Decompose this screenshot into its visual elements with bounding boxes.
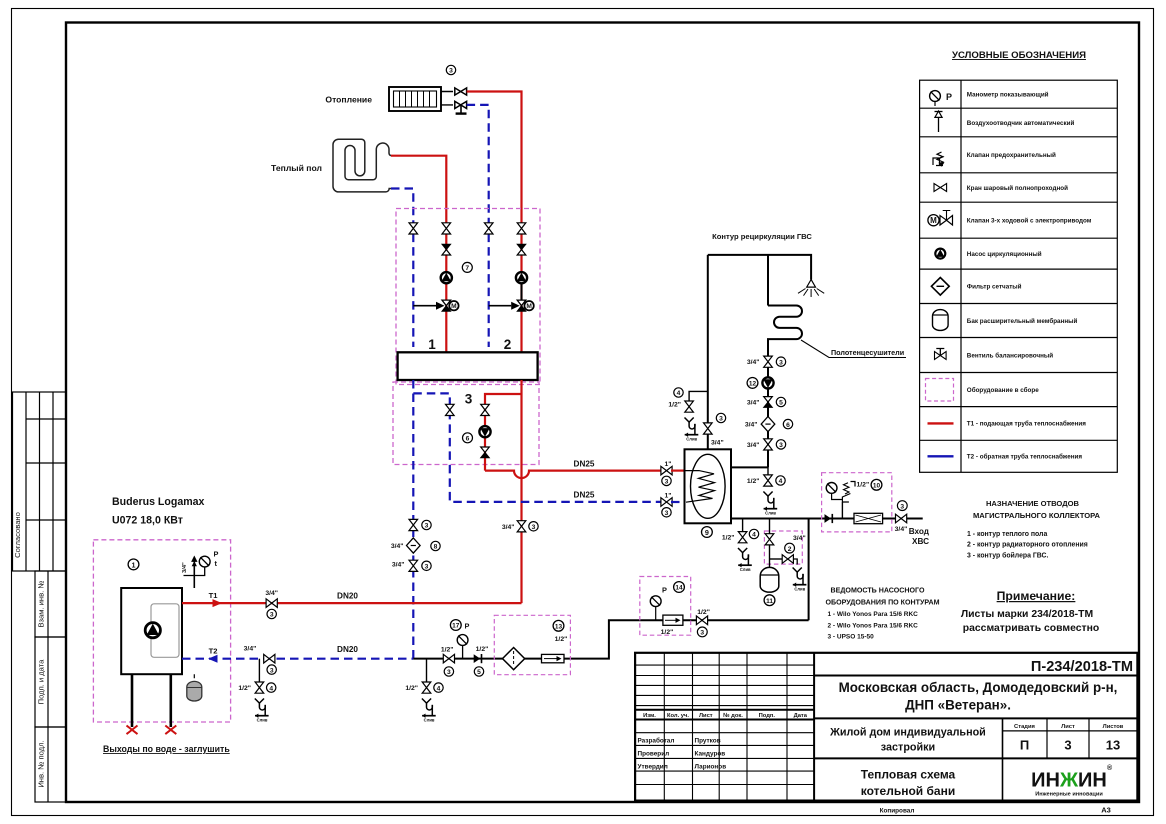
valve red branch3	[481, 404, 490, 415]
svg-text:рассматривать совместно: рассматривать совместно	[963, 623, 1099, 634]
svg-text:П: П	[1020, 738, 1029, 753]
3way valve V2	[517, 300, 534, 311]
circled 6 pump3	[463, 433, 473, 443]
wire recirc top line	[708, 255, 811, 280]
pump P1	[441, 272, 452, 283]
svg-text:3: 3	[665, 510, 669, 517]
svg-text:Копировал: Копировал	[880, 808, 915, 815]
wire red branch3	[485, 394, 522, 471]
stage list cells	[1003, 718, 1138, 758]
approval strip Soglasovano box	[13, 392, 67, 571]
svg-text:НАЗНАЧЕНИЕ ОТВОДОВ: НАЗНАЧЕНИЕ ОТВОДОВ	[986, 499, 1080, 508]
drain branch tank top	[668, 388, 707, 442]
svg-text:3: 3	[270, 612, 274, 619]
svg-text:6: 6	[786, 422, 790, 429]
expansion tank 11	[760, 567, 779, 605]
svg-text:Тепловая схема: Тепловая схема	[861, 768, 956, 782]
valve CW inlet	[895, 501, 908, 533]
svg-text:2: 2	[504, 337, 512, 352]
check valve branch3	[481, 447, 490, 458]
arrow T1	[213, 599, 223, 607]
svg-text:11: 11	[766, 598, 773, 605]
svg-text:6: 6	[466, 436, 470, 443]
svg-text:1/2": 1/2"	[697, 609, 710, 616]
svg-text:17: 17	[452, 623, 460, 630]
svg-text:3/4": 3/4"	[895, 526, 908, 533]
wire recirc column	[767, 367, 769, 468]
title block vertical divider right part	[813, 653, 815, 801]
svg-text:DN20: DN20	[337, 592, 358, 601]
stage values text	[1020, 738, 1120, 753]
wire red1 riser	[445, 234, 447, 353]
svg-text:3: 3	[719, 416, 723, 423]
expansion branch	[765, 519, 806, 592]
svg-text:3/4": 3/4"	[747, 442, 760, 449]
valve red1	[442, 223, 451, 234]
svg-text:1/2": 1/2"	[405, 685, 418, 692]
svg-text:2 - контур радиаторного отопле: 2 - контур радиаторного отопления	[967, 542, 1088, 549]
svg-text:Инв. № подл.: Инв. № подл.	[37, 740, 46, 787]
equipment box 14	[640, 577, 691, 636]
legend sym T1 line	[928, 422, 954, 424]
svg-text:3/4": 3/4"	[392, 562, 405, 569]
wire CW tank feed line	[731, 518, 923, 520]
svg-text:3: 3	[532, 524, 536, 531]
check valve red2	[517, 244, 526, 255]
drain T2	[238, 659, 276, 723]
wire T2 blue	[182, 658, 413, 660]
drain CW line	[722, 519, 759, 573]
boiler gauge Pt	[184, 550, 219, 576]
wire red main riser down	[520, 380, 522, 603]
title block outer box	[635, 653, 1137, 801]
meter box14	[661, 615, 683, 636]
legend sym 3way valve	[928, 211, 953, 226]
svg-text:Слив: Слив	[740, 567, 751, 572]
svg-text:3: 3	[779, 359, 783, 366]
3way arrow V1	[413, 302, 444, 310]
circled 7 pumps	[462, 262, 472, 272]
svg-text:Проверил: Проверил	[638, 751, 670, 758]
svg-text:1/2": 1/2"	[441, 647, 454, 654]
svg-text:1 - Wilo Yonos Para 15/6 RKC: 1 - Wilo Yonos Para 15/6 RKC	[828, 611, 919, 618]
legend sym expansion tank	[933, 310, 949, 331]
wire T1 red	[182, 602, 522, 604]
equipment box 2	[764, 531, 802, 564]
signature rows names	[638, 737, 727, 771]
svg-text:9: 9	[705, 528, 709, 537]
legend sym air vent	[935, 111, 943, 132]
check valve red1	[442, 244, 451, 255]
valve makeup upper	[696, 609, 710, 637]
circled 9 tank	[702, 527, 713, 538]
strainer recirc	[745, 417, 793, 432]
svg-text:Ларионов: Ларионов	[695, 764, 727, 771]
svg-text:1/2": 1/2"	[238, 685, 251, 692]
svg-text:Кандуров: Кандуров	[695, 751, 726, 758]
floor heating coil	[333, 139, 391, 192]
wire recirc drop	[767, 255, 769, 306]
svg-text:Слив: Слив	[257, 718, 268, 723]
svg-text:3: 3	[700, 630, 704, 637]
valve DN25 supply at tank	[661, 461, 672, 486]
pump P3	[479, 426, 490, 437]
title block left grid lines	[635, 653, 814, 801]
svg-text:Взам. инв. №: Взам. инв. №	[37, 580, 46, 627]
svg-text:Разработал: Разработал	[638, 737, 675, 745]
strip box Vzam inv	[35, 571, 66, 637]
strip box Podp i data	[35, 637, 66, 727]
svg-text:Листов: Листов	[1103, 724, 1124, 730]
svg-text:3: 3	[447, 669, 451, 676]
svg-text:3: 3	[425, 523, 429, 530]
valve tank top	[704, 413, 726, 446]
svg-text:Оборудование в сборе: Оборудование в сборе	[967, 386, 1039, 394]
valve blue riser bottom	[392, 560, 431, 571]
legend sym manometer	[930, 91, 952, 106]
svg-text:3: 3	[779, 442, 783, 449]
3way arrow V2	[489, 302, 520, 310]
legend sym T2 line	[928, 455, 954, 457]
valve red2	[517, 223, 526, 234]
svg-text:Кран шаровый полнопроходной: Кран шаровый полнопроходной	[967, 184, 1068, 192]
svg-text:3: 3	[270, 667, 274, 674]
valve recirc bottom	[747, 439, 786, 450]
drain makeup line	[405, 659, 443, 723]
svg-text:12: 12	[749, 381, 757, 388]
wire pump2 to valve2 black	[521, 284, 523, 300]
check valve box10	[825, 514, 833, 523]
svg-text:Теплый пол: Теплый пол	[271, 163, 322, 173]
svg-text:Т1: Т1	[209, 591, 219, 600]
svg-text:Слив: Слив	[686, 437, 697, 442]
valve T2	[264, 654, 277, 674]
boiler inner panel	[151, 604, 179, 658]
svg-text:Инженерные инновации: Инженерные инновации	[1035, 792, 1103, 798]
wire red to tank	[671, 470, 685, 472]
3way valve V1	[442, 300, 459, 311]
wire floor return blue	[391, 189, 413, 224]
svg-text:7: 7	[465, 265, 469, 272]
svg-text:3: 3	[665, 479, 669, 486]
svg-text:1": 1"	[664, 492, 671, 499]
boiler pump	[145, 623, 160, 638]
svg-text:10: 10	[873, 483, 881, 490]
radiator supply valve	[455, 88, 467, 95]
boiler sensor stem	[191, 556, 197, 589]
legend sym safety valve	[933, 152, 945, 167]
towel dryer coil	[768, 306, 802, 357]
expansion vessel boiler	[187, 674, 202, 701]
svg-text:3/4": 3/4"	[244, 646, 257, 653]
svg-text:Согласовано: Согласовано	[13, 512, 22, 558]
legend sym pump	[935, 249, 945, 259]
svg-text:Стадия: Стадия	[1014, 724, 1035, 730]
svg-text:P: P	[214, 550, 219, 559]
svg-text:1/2": 1/2"	[661, 629, 674, 636]
list kontur items	[967, 531, 1088, 559]
check valve recirc	[747, 397, 786, 408]
equipment box boiler	[93, 540, 230, 722]
drain recirc bottom	[747, 467, 785, 515]
legend sym balance valve	[935, 349, 947, 360]
svg-text:1 - контур теплого пола: 1 - контур теплого пола	[967, 531, 1047, 538]
meter box10	[854, 513, 883, 523]
doc number cell	[814, 675, 1137, 677]
svg-text:Вентиль балансировочный: Вентиль балансировочный	[967, 351, 1054, 359]
svg-text:3/4": 3/4"	[265, 590, 278, 597]
valve blue1	[409, 223, 418, 234]
radiator Otoplenie	[389, 87, 441, 111]
valve DN25 return at tank	[661, 492, 672, 517]
legend sym equipment box	[926, 379, 954, 402]
collector manifold	[398, 352, 538, 380]
svg-text:4: 4	[437, 685, 441, 692]
svg-text:ВЕДОМОСТЬ НАСОСНОГО: ВЕДОМОСТЬ НАСОСНОГО	[831, 587, 925, 595]
legend sym strainer	[931, 278, 949, 296]
project location cell line	[814, 717, 1137, 719]
object cell divider	[1002, 718, 1004, 800]
svg-text:Насос циркуляционный: Насос циркуляционный	[967, 250, 1042, 258]
circled 3 radiator	[446, 65, 455, 74]
svg-text:3: 3	[1064, 738, 1071, 753]
svg-text:DN25: DN25	[574, 460, 595, 469]
wire blue main riser down	[412, 380, 414, 659]
boiler body	[121, 588, 182, 674]
DHW tank	[685, 449, 732, 523]
svg-text:Т1 - подающая труба теплоснабж: Т1 - подающая труба теплоснабжения	[967, 420, 1086, 428]
safety group box10	[826, 482, 855, 519]
pump schedule items	[828, 611, 919, 641]
svg-text:14: 14	[675, 585, 683, 592]
svg-text:Т2 - обратная труба теплоснабж: Т2 - обратная труба теплоснабжения	[967, 453, 1083, 461]
svg-text:ИНЖИН: ИНЖИН	[1031, 770, 1107, 792]
svg-text:№ док.: № док.	[723, 713, 743, 719]
arrow T2	[208, 655, 218, 663]
svg-text:3/4": 3/4"	[747, 400, 760, 407]
svg-text:4: 4	[269, 685, 273, 692]
svg-text:3/4": 3/4"	[391, 543, 404, 550]
svg-text:Полотенцесушители: Полотенцесушители	[831, 348, 904, 357]
svg-text:1: 1	[132, 560, 136, 569]
svg-text:3/4": 3/4"	[502, 524, 515, 531]
valve T1	[266, 599, 277, 619]
svg-text:Листы марки 234/2018-ТМ: Листы марки 234/2018-ТМ	[961, 609, 1093, 620]
svg-text:®: ®	[1107, 764, 1113, 772]
equipment box collector unit	[396, 209, 540, 385]
svg-text:3/4": 3/4"	[793, 535, 806, 542]
svg-text:Слив: Слив	[794, 587, 805, 592]
svg-text:3 - контур бойлера ГВС.: 3 - контур бойлера ГВС.	[967, 551, 1048, 559]
valve makeup lower	[443, 654, 454, 676]
svg-text:3/4": 3/4"	[182, 562, 188, 573]
svg-text:U072 18,0 КВт: U072 18,0 КВт	[112, 515, 183, 527]
svg-text:P: P	[946, 92, 952, 102]
svg-text:3: 3	[425, 564, 429, 571]
wire makeup lower	[413, 620, 808, 658]
stage header text	[1014, 724, 1124, 730]
radiator stubs	[441, 92, 453, 105]
boiler legs	[132, 674, 171, 727]
header labels Izm Kol List	[643, 713, 808, 719]
wire DHW riser	[707, 255, 709, 423]
gauge makeup	[441, 620, 470, 659]
svg-text:3: 3	[449, 68, 453, 75]
circled 1 boiler	[128, 559, 139, 570]
svg-text:Примечание:: Примечание:	[997, 589, 1076, 603]
svg-text:А3: А3	[1101, 806, 1111, 815]
svg-text:5: 5	[477, 669, 481, 676]
labels box10	[857, 479, 882, 490]
svg-text:Лист: Лист	[1061, 724, 1075, 730]
svg-text:13: 13	[555, 624, 563, 631]
svg-text:Изм.: Изм.	[643, 713, 656, 719]
svg-text:1/2": 1/2"	[555, 636, 568, 643]
svg-text:Утвердил: Утвердил	[638, 764, 668, 771]
pump recirc	[747, 377, 774, 388]
svg-text:Бак расширительный мембранный: Бак расширительный мембранный	[967, 317, 1078, 325]
red X cap right	[165, 726, 176, 735]
svg-text:Подп.: Подп.	[759, 713, 776, 719]
svg-text:ОБОРУДОВАНИЯ ПО КОНТУРАМ: ОБОРУДОВАНИЯ ПО КОНТУРАМ	[825, 599, 939, 607]
svg-text:3/4": 3/4"	[745, 422, 758, 429]
wire recirc into tank	[731, 466, 768, 468]
svg-text:1": 1"	[664, 461, 671, 468]
svg-text:Фильтр сетчатый: Фильтр сетчатый	[967, 283, 1022, 291]
svg-text:Контур рециркуляции ГВС: Контур рециркуляции ГВС	[712, 232, 812, 241]
svg-text:Выходы по воде - заглушить: Выходы по воде - заглушить	[103, 744, 230, 754]
wire red DN25 supply with bridge	[485, 471, 661, 479]
svg-text:Московская область, Домодедовс: Московская область, Домодедовский р-н,	[839, 680, 1118, 695]
svg-text:8: 8	[434, 544, 438, 551]
svg-text:3/4": 3/4"	[747, 359, 760, 366]
wire blue branch3	[413, 393, 661, 502]
svg-text:M: M	[930, 216, 937, 225]
wire CW riser down	[808, 519, 810, 621]
svg-text:2: 2	[788, 546, 792, 553]
wire red2 riser	[520, 234, 522, 353]
svg-text:1/2": 1/2"	[722, 535, 735, 542]
svg-text:Кол. уч.: Кол. уч.	[667, 713, 689, 719]
svg-text:Воздухоотводчик автоматический: Воздухоотводчик автоматический	[967, 119, 1075, 127]
wire blue1 riser	[412, 234, 414, 347]
svg-text:1/2": 1/2"	[857, 482, 870, 489]
svg-text:P: P	[465, 622, 470, 631]
svg-text:Buderus Logamax: Buderus Logamax	[112, 496, 205, 508]
svg-text:Дата: Дата	[794, 713, 808, 719]
svg-text:1/2": 1/2"	[668, 402, 681, 409]
equipment box 13	[494, 615, 570, 674]
INZHIN logo	[1031, 764, 1113, 798]
svg-text:Слив: Слив	[424, 718, 435, 723]
svg-text:П-234/2018-ТМ: П-234/2018-ТМ	[1031, 659, 1133, 675]
svg-text:Т2: Т2	[209, 647, 218, 656]
svg-text:застройки: застройки	[881, 742, 935, 754]
svg-text:Клапан предохранительный: Клапан предохранительный	[967, 151, 1056, 159]
title block header band	[635, 710, 814, 720]
radiator vent tick	[456, 106, 467, 114]
svg-text:УСЛОВНЫЕ ОБОЗНАЧЕНИЯ: УСЛОВНЫЕ ОБОЗНАЧЕНИЯ	[952, 50, 1086, 61]
shower head	[798, 280, 824, 298]
svg-text:13: 13	[1106, 738, 1120, 753]
check valve makeup	[474, 646, 489, 676]
svg-text:DN20: DN20	[337, 645, 358, 654]
strainer box13	[503, 648, 525, 670]
wire radiator supply red	[467, 92, 522, 223]
svg-text:DN25: DN25	[574, 491, 595, 500]
wire tank top outlet	[707, 434, 709, 450]
svg-text:ХВС: ХВС	[912, 537, 929, 546]
svg-text:3 - UPSO 15-50: 3 - UPSO 15-50	[828, 634, 875, 641]
svg-text:P: P	[662, 586, 667, 595]
svg-text:Жилой дом индивидуальной: Жилой дом индивидуальной	[829, 727, 986, 739]
svg-text:1: 1	[428, 337, 436, 352]
svg-text:3: 3	[900, 503, 904, 510]
meter box13	[542, 654, 565, 662]
wire blue to tank	[671, 501, 685, 503]
wire floor supply red	[391, 156, 446, 223]
svg-text:ДНП «Ветеран».: ДНП «Ветеран».	[905, 698, 1011, 713]
leader towel dryers	[801, 340, 906, 358]
svg-text:5: 5	[779, 400, 783, 407]
pump P2	[516, 272, 527, 283]
svg-text:котельной бани: котельной бани	[861, 784, 955, 798]
svg-text:Клапан 3-х ходовой с электропр: Клапан 3-х ходовой с электроприводом	[967, 217, 1092, 225]
svg-text:1/2": 1/2"	[476, 646, 489, 653]
svg-text:4: 4	[752, 532, 756, 539]
svg-text:3: 3	[465, 392, 473, 407]
svg-text:Прутков: Прутков	[695, 738, 721, 745]
svg-text:Вход: Вход	[909, 527, 930, 536]
svg-text:2 - Wilo Yonos Para 15/6 RKC: 2 - Wilo Yonos Para 15/6 RKC	[828, 622, 919, 629]
gauge box14	[650, 582, 684, 621]
svg-text:Манометр показывающий: Манометр показывающий	[967, 91, 1049, 99]
strip box Inv N podl	[35, 727, 66, 802]
labels box13	[553, 620, 567, 643]
svg-text:Отопление: Отопление	[325, 95, 372, 105]
svg-text:1/2": 1/2"	[747, 478, 760, 485]
valve recirc top	[747, 356, 786, 367]
svg-text:4: 4	[677, 390, 681, 397]
svg-text:3/4": 3/4"	[711, 440, 724, 447]
legend sym ball valve	[934, 184, 947, 192]
valve blue2	[484, 223, 493, 234]
valve blue branch3	[446, 404, 455, 415]
svg-text:Слив: Слив	[765, 511, 776, 516]
svg-text:Подп. и дата: Подп. и дата	[37, 659, 46, 705]
wire blue2 riser	[488, 234, 490, 347]
svg-text:Лист: Лист	[699, 713, 713, 719]
svg-text:МАГИСТРАЛЬНОГО КОЛЛЕКТОРА: МАГИСТРАЛЬНОГО КОЛЛЕКТОРА	[973, 511, 1101, 520]
radiator return valve	[455, 101, 467, 108]
strainer blue riser	[391, 538, 440, 553]
svg-text:4: 4	[779, 478, 783, 485]
wire radiator return blue	[467, 105, 489, 223]
equipment box 10	[822, 473, 892, 532]
legend texts	[967, 91, 1092, 461]
valve blue riser top	[409, 519, 431, 530]
equipment box circuit3	[393, 382, 539, 465]
legend table grid	[920, 80, 1118, 472]
red X cap left	[127, 726, 138, 735]
valve red riser 34	[502, 521, 538, 532]
